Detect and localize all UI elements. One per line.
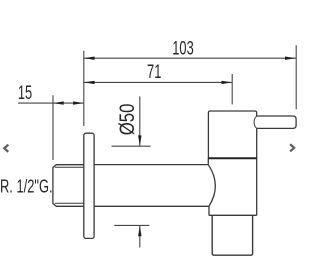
extension line body centre (231, 74, 233, 104)
lever attachment fillet (254, 116, 257, 128)
dimension line diameter upper (139, 96, 141, 145)
valve body lower-left edge (208, 206, 210, 215)
nipple thread line top (55, 166, 84, 168)
dimension line 103 (84, 57, 296, 59)
extension line wall face (83, 51, 85, 126)
arrowhead 71 left (84, 81, 95, 84)
arrowhead 71 right (222, 81, 233, 84)
extension line diameter bottom (114, 224, 149, 226)
arrowhead 103 right (285, 57, 296, 60)
arrowhead 15 left (53, 101, 64, 104)
dimension line diameter lower (139, 226, 141, 248)
svg-text:103: 103 (172, 37, 193, 59)
pipe top line (94, 164, 208, 166)
lever handle (257, 116, 296, 128)
extension line lever tip (295, 45, 297, 109)
arrowhead 15 right (73, 101, 84, 104)
svg-text:R. 1/2"G.: R. 1/2"G. (0, 176, 53, 197)
cartridge housing right edge lower part (256, 128, 258, 215)
pipe-body intersection arc (208, 165, 215, 207)
svg-text:15: 15 (18, 81, 32, 103)
spout (212, 215, 252, 255)
junction line thick (208, 157, 256, 159)
carousel arrow left (4, 145, 8, 152)
pipe bottom line (94, 205, 209, 207)
extension line diameter top (112, 145, 151, 147)
svg-text:71: 71 (147, 60, 161, 82)
dimension line 15 (18, 102, 84, 104)
arrowhead diameter down (138, 135, 141, 146)
valve body bottom edge (209, 214, 257, 216)
svg-text:Ø50: Ø50 (116, 104, 139, 136)
carousel arrow right (290, 144, 294, 151)
wall flange (84, 133, 94, 238)
dimension line 71 (84, 81, 232, 83)
arrowhead 103 left (84, 57, 95, 60)
nipple thread line bottom (55, 202, 84, 204)
extension line nipple end (52, 95, 54, 160)
valve body left edge (207, 158, 209, 164)
arrowhead diameter up (138, 226, 141, 237)
threaded nipple (53, 165, 84, 207)
cartridge housing top and sides (208, 111, 256, 158)
